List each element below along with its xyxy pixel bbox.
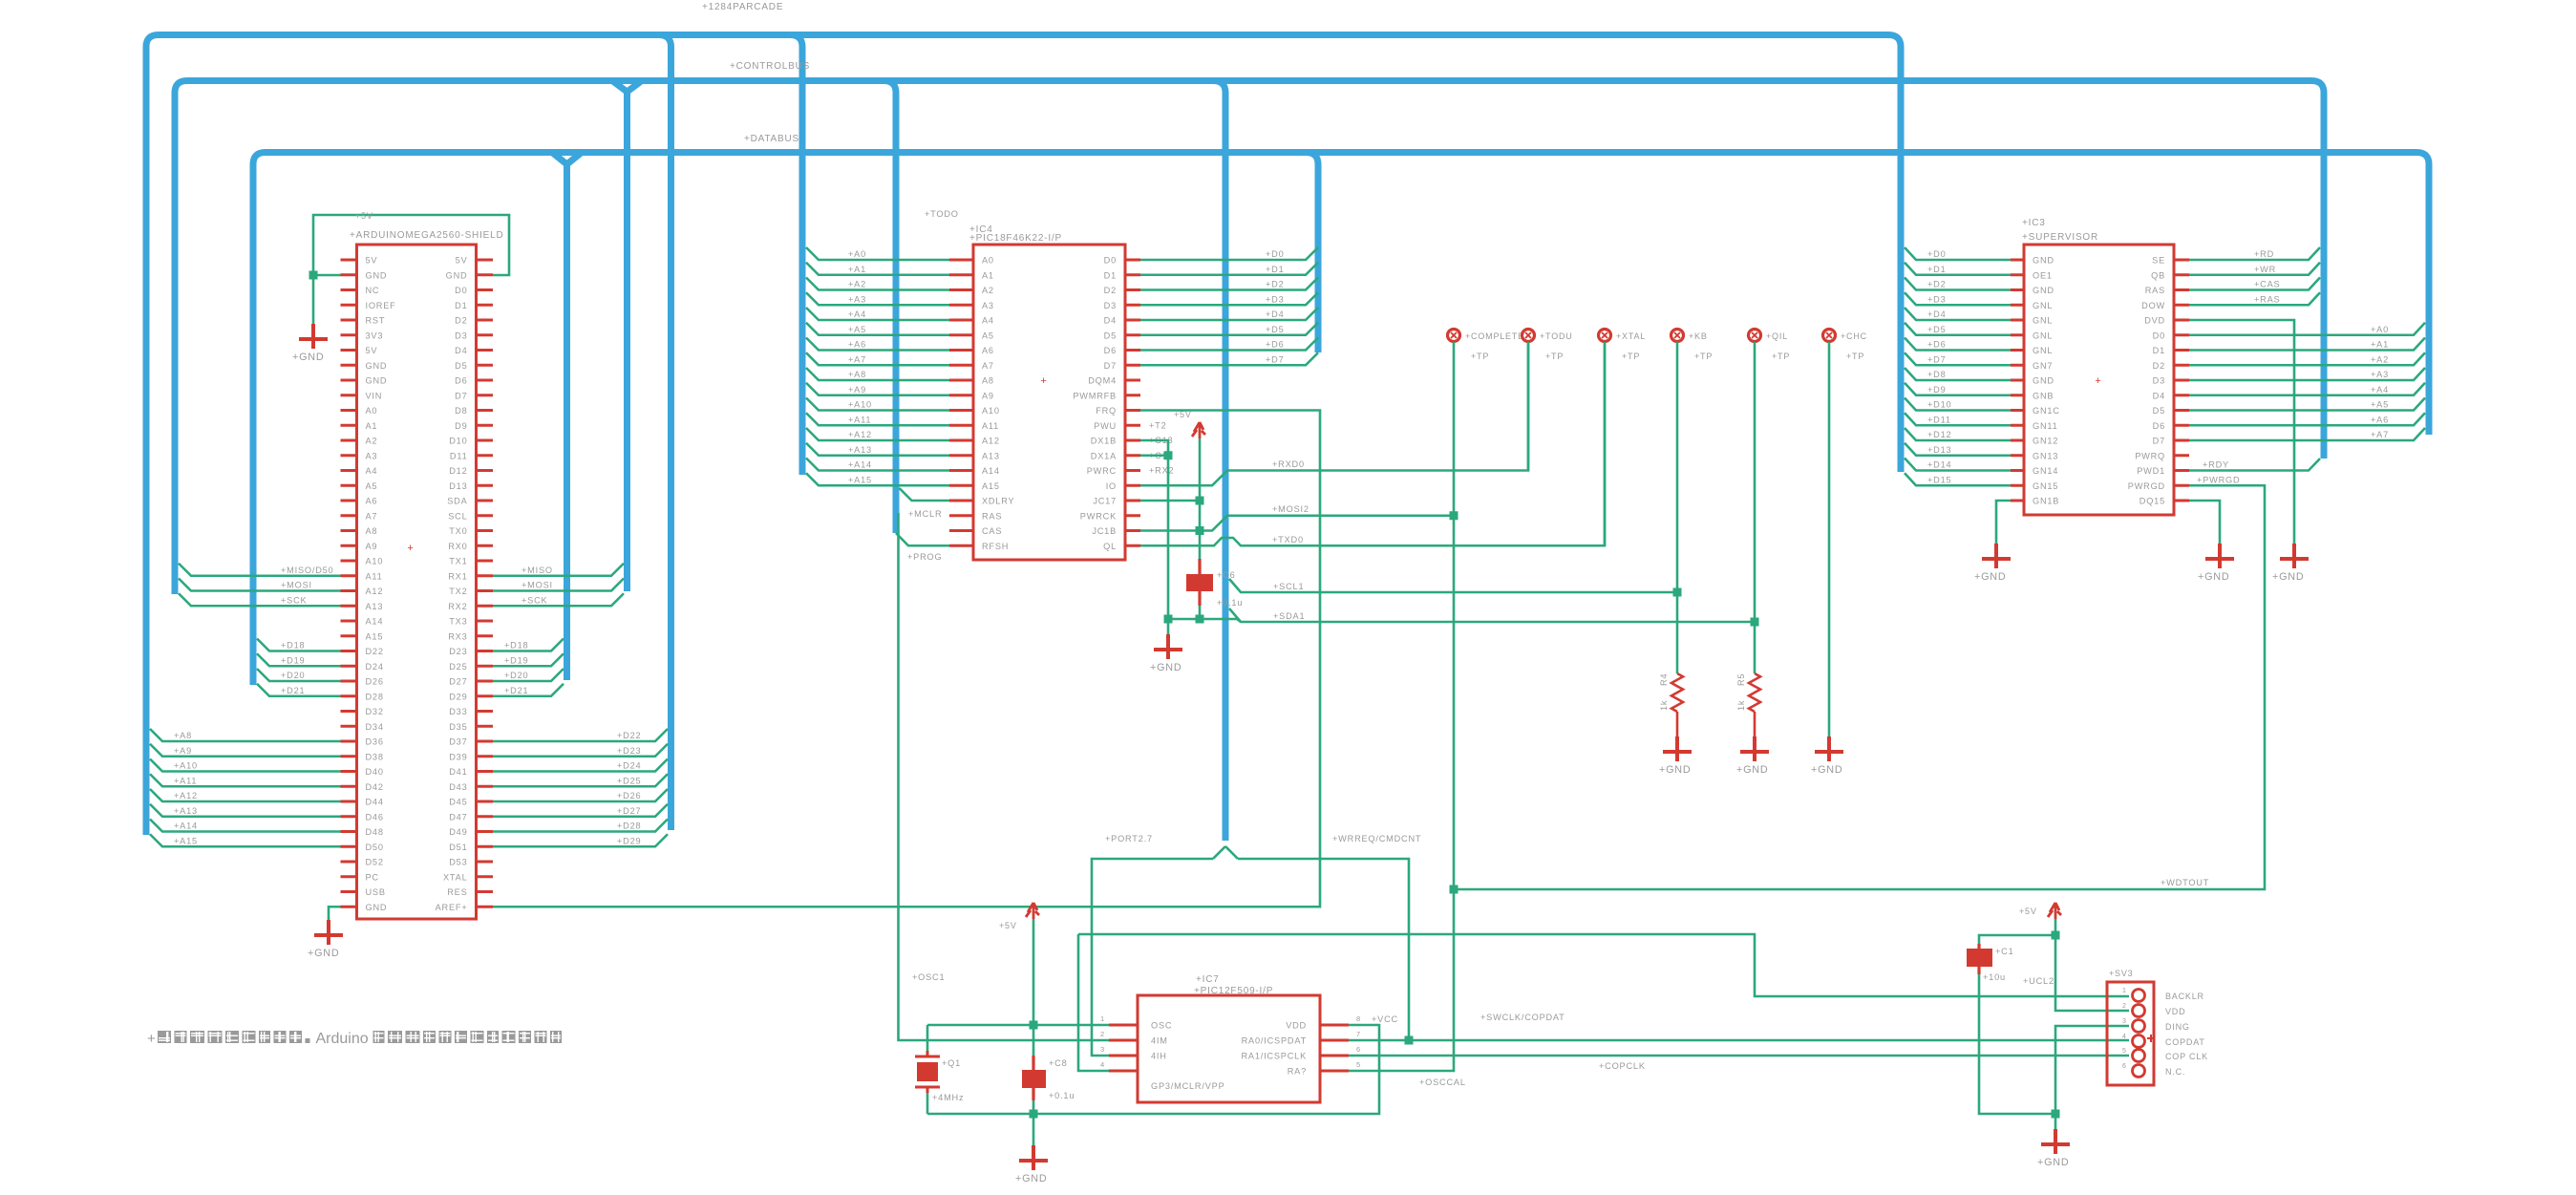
wire TP6 vertical to ground [1828, 342, 1831, 736]
svg-text:+A5: +A5 [2371, 400, 2389, 410]
svg-text:A2: A2 [366, 437, 378, 446]
svg-text:+A8: +A8 [174, 731, 192, 740]
svg-text:+D12: +D12 [1927, 430, 1951, 439]
svg-text:+GND: +GND [1659, 764, 1692, 776]
wire connector pin3 to ground rail [2052, 1026, 2130, 1119]
wire +5V loop to M5 pins row2 [309, 211, 510, 280]
svg-text:D23: D23 [449, 647, 467, 656]
svg-text:D46: D46 [366, 812, 384, 822]
svg-text:+T2: +T2 [1149, 420, 1167, 430]
ground at connector [2037, 1114, 2070, 1168]
capacitor C8 [1022, 1056, 1075, 1100]
svg-text:GNB: GNB [2033, 391, 2054, 400]
svg-text:IOREF: IOREF [366, 301, 396, 310]
svg-text:VDD: VDD [1286, 1021, 1307, 1031]
bus branch V5 from B2 [612, 81, 642, 592]
svg-text:A1: A1 [982, 270, 994, 280]
svg-text:SCL: SCL [448, 511, 467, 521]
svg-text:+A12: +A12 [848, 430, 872, 439]
svg-text:GNL: GNL [2033, 331, 2053, 340]
bus B2 horizontal [175, 81, 2324, 595]
svg-text:GN13: GN13 [2033, 451, 2058, 460]
svg-text:TX1: TX1 [449, 557, 467, 566]
svg-text:COPDAT: COPDAT [2165, 1037, 2205, 1047]
svg-text:BACKLR: BACKLR [2165, 992, 2204, 1001]
svg-text:+: + [407, 543, 414, 554]
svg-text:+D0: +D0 [1266, 249, 1285, 259]
wire IC7 pin6 COPCLK to connector pin5 [1349, 1056, 2129, 1071]
svg-text:+D8: +D8 [1927, 370, 1947, 379]
svg-text:+XTAL: +XTAL [1616, 331, 1646, 341]
svg-text:D0: D0 [1104, 256, 1117, 266]
svg-text:PWD1: PWD1 [2137, 466, 2165, 476]
svg-text:A13: A13 [982, 451, 1000, 460]
svg-text:D6: D6 [2153, 421, 2165, 431]
svg-text:GND: GND [446, 270, 468, 280]
svg-text:+TP: +TP [1471, 352, 1489, 361]
wires M5 right rows 27-30 to bus V4 [493, 639, 564, 696]
svg-text:AREF+: AREF+ [436, 903, 468, 912]
svg-text:+A5: +A5 [848, 325, 866, 334]
svg-text:DX1A: DX1A [1091, 451, 1117, 460]
svg-text:+SCK: +SCK [522, 595, 548, 605]
svg-text:A5: A5 [366, 481, 378, 491]
svg-text:DQ15: DQ15 [2140, 497, 2165, 506]
svg-text:+A6: +A6 [2371, 415, 2389, 424]
svg-text:A6: A6 [982, 346, 994, 355]
svg-text:+PROG: +PROG [907, 552, 942, 562]
svg-text:A10: A10 [982, 406, 1000, 416]
svg-text:+A0: +A0 [848, 249, 866, 259]
wires IC3 right rows6-13 to bus B3 right [2189, 323, 2425, 440]
svg-text:+MOSI2: +MOSI2 [1272, 504, 1309, 514]
svg-text:+GND: +GND [1736, 764, 1769, 776]
svg-text:GND: GND [2033, 256, 2054, 266]
svg-text:1k: 1k [1736, 700, 1746, 711]
test point TP5 [1749, 330, 1791, 362]
wire from step corner down to IC7 pin4 [1078, 934, 1109, 1071]
svg-text:RAS: RAS [982, 511, 1002, 521]
svg-text:5: 5 [2122, 1048, 2127, 1055]
svg-text:A8: A8 [982, 376, 994, 386]
svg-text:A4: A4 [366, 466, 378, 476]
svg-text:D51: D51 [449, 843, 467, 852]
svg-text:D4: D4 [1104, 316, 1117, 326]
svg-text:+D15: +D15 [1927, 475, 1951, 484]
wire IC4 row14 junction [1140, 451, 1173, 459]
svg-text:D49: D49 [449, 827, 467, 837]
svg-text:+D18: +D18 [281, 641, 305, 651]
wire stepped COPDAT0 to connector pin1 [1078, 934, 2129, 996]
svg-text:+RD: +RD [2254, 249, 2274, 259]
svg-text:5V: 5V [366, 256, 378, 266]
svg-text:+D5: +D5 [1266, 325, 1285, 334]
svg-text:A15: A15 [982, 481, 1000, 491]
svg-text:+GND: +GND [292, 352, 325, 363]
svg-text:1: 1 [1100, 1014, 1105, 1023]
svg-text:PWRC: PWRC [1087, 466, 1117, 476]
ground bottom middle [1015, 1114, 1048, 1184]
svg-text:+A2: +A2 [2371, 354, 2389, 364]
supply +5V arrow at IC4 [1174, 410, 1205, 438]
net labels right of port bus [1272, 459, 1309, 621]
svg-text:TX2: TX2 [449, 587, 467, 596]
svg-text:+UCL2: +UCL2 [2023, 976, 2054, 986]
svg-text:+OSC1: +OSC1 [912, 972, 945, 982]
svg-text:A6: A6 [366, 497, 378, 506]
svg-text:D0: D0 [455, 286, 467, 295]
svg-text:D2: D2 [1104, 286, 1117, 295]
svg-text:GN14: GN14 [2033, 466, 2058, 476]
ground under TP6 [1811, 736, 1843, 776]
svg-text:JC1B: JC1B [1092, 526, 1117, 536]
svg-text:3V3: 3V3 [366, 331, 384, 340]
svg-text:+A8: +A8 [848, 370, 866, 379]
svg-text:+COMPLETE: +COMPLETE [1465, 331, 1524, 341]
svg-text:D32: D32 [366, 707, 384, 716]
wire TP4 vertical to resistor R1 [1676, 342, 1679, 673]
wires IC4 left address bundle rows1-16 from bus V7 [806, 247, 949, 485]
wires M5 left rows 22-24 from bus B2 [179, 564, 341, 607]
label UCL2 [2023, 976, 2054, 986]
connector M5 ARDUINO MEGA2560 SHIELD outline [350, 230, 504, 919]
svg-text:SDA: SDA [447, 497, 467, 506]
svg-text:JC17: JC17 [1093, 497, 1117, 506]
svg-text:XTAL: XTAL [443, 872, 468, 882]
svg-text:N.C.: N.C. [2165, 1067, 2185, 1077]
svg-text:+A4: +A4 [848, 309, 866, 319]
wire capacitor C6 bottom to rail and R2 junction [1168, 606, 1759, 627]
svg-text:+A11: +A11 [848, 415, 871, 424]
svg-text:D7: D7 [1104, 361, 1117, 371]
svg-text:+IC3: +IC3 [2022, 218, 2046, 228]
svg-text:+A14: +A14 [848, 460, 872, 470]
svg-text:+VCC: +VCC [1372, 1014, 1398, 1024]
svg-text:VDD: VDD [2165, 1007, 2185, 1016]
label OSCCAL at IC7 pin5 wire [1419, 1078, 1466, 1087]
bus branch V10 from B3 [1306, 153, 1318, 353]
bus branch V8 from B2 [884, 81, 896, 534]
svg-text:D6: D6 [1104, 346, 1117, 355]
svg-text:+MISO/D50: +MISO/D50 [281, 565, 333, 575]
labels IC4 right rows12-15 [1149, 420, 1174, 475]
svg-text:+CHC: +CHC [1841, 331, 1867, 341]
svg-text:D37: D37 [449, 737, 467, 747]
svg-text:D5: D5 [2153, 406, 2165, 416]
IC3 pins with names [2011, 256, 2189, 506]
connector SV3 pins [2107, 969, 2208, 1085]
svg-text:QB: QB [2151, 270, 2165, 280]
svg-text:+0.1u: +0.1u [1217, 598, 1243, 608]
svg-text:+4MHz: +4MHz [932, 1093, 964, 1102]
svg-text:D0: D0 [2153, 331, 2165, 340]
svg-text:+KB: +KB [1689, 331, 1708, 341]
svg-text:+D26: +D26 [617, 791, 641, 800]
svg-text:XDLRY: XDLRY [982, 497, 1014, 506]
svg-text:COP CLK: COP CLK [2165, 1052, 2208, 1061]
svg-text:6: 6 [1356, 1045, 1361, 1054]
svg-text:D12: D12 [449, 466, 467, 476]
svg-text:D1: D1 [1104, 270, 1117, 280]
svg-text:PWRCK: PWRCK [1080, 511, 1117, 521]
svg-text:+TP: +TP [1622, 352, 1640, 361]
svg-text:TX3: TX3 [449, 617, 467, 627]
wire IC4 left row17 from bus V8 [900, 488, 950, 501]
svg-text:+0.1u: +0.1u [1049, 1091, 1075, 1100]
svg-text:+PIC18F46K22-I/P: +PIC18F46K22-I/P [969, 233, 1062, 244]
wire IC7 pin1 OSC rail [912, 972, 1109, 1030]
svg-text:+TODO: +TODO [925, 209, 959, 219]
svg-text:D3: D3 [2153, 376, 2165, 386]
svg-text:D43: D43 [449, 782, 467, 792]
ground under IC3 right row17 [2198, 544, 2234, 583]
capacitor C1 [1967, 944, 2014, 982]
svg-text:RX0: RX0 [448, 542, 467, 551]
svg-text:+D4: +D4 [1927, 309, 1947, 319]
svg-text:D10: D10 [449, 437, 467, 446]
wire MCLR net from bus V8 down to IC7 pin2 [899, 509, 1110, 1040]
IC4 name labels [925, 209, 1062, 387]
svg-text:D1: D1 [455, 301, 467, 310]
svg-text:D4: D4 [2153, 391, 2165, 400]
svg-text:GN1B: GN1B [2033, 497, 2059, 506]
svg-text:D36: D36 [366, 737, 384, 747]
svg-text:+A1: +A1 [2371, 340, 2389, 350]
svg-text:RX2: RX2 [448, 602, 467, 611]
svg-text:D48: D48 [366, 827, 384, 837]
connector M5 pins with names [341, 256, 494, 912]
svg-text:+D19: +D19 [281, 655, 305, 665]
svg-text:+C1: +C1 [1995, 947, 2014, 956]
svg-text:+A3: +A3 [2371, 370, 2389, 379]
svg-text:RES: RES [447, 887, 467, 897]
svg-text:A5: A5 [982, 331, 994, 340]
svg-text:+GND: +GND [1015, 1173, 1048, 1184]
ground under IC4 C bypass [1150, 615, 1182, 674]
wire IC4 row13 to GND rail [1140, 440, 1168, 619]
svg-text:5V: 5V [456, 256, 468, 266]
svg-text:A4: A4 [982, 316, 994, 326]
svg-text:A9: A9 [982, 391, 994, 400]
wires M5 left rows 27-30 from bus B3 [257, 639, 341, 696]
svg-text:RX3: RX3 [448, 631, 467, 641]
svg-text:+RX2: +RX2 [1149, 466, 1174, 476]
svg-text:GND: GND [366, 361, 388, 371]
bus label CONTROL [730, 61, 810, 72]
svg-text:D22: D22 [366, 647, 384, 656]
svg-text:D4: D4 [455, 346, 467, 355]
svg-text:+Q1: +Q1 [942, 1058, 961, 1068]
svg-text:+PIC12F509-I/P: +PIC12F509-I/P [1194, 986, 1273, 996]
svg-text:+GND: +GND [1150, 662, 1182, 673]
svg-text:TX0: TX0 [449, 526, 467, 536]
svg-text:R5: R5 [1736, 673, 1746, 686]
svg-text:+TP: +TP [1772, 352, 1790, 361]
svg-text:D33: D33 [449, 707, 467, 716]
svg-text:+A0: +A0 [2371, 325, 2389, 334]
svg-text:+A6: +A6 [848, 340, 866, 350]
svg-text:+D0: +D0 [1927, 249, 1947, 259]
svg-text:+D29: +D29 [617, 836, 641, 845]
svg-text:+GND: +GND [2037, 1157, 2070, 1168]
svg-text:GN1C: GN1C [2033, 406, 2060, 416]
svg-text:+CONTROLBUS: +CONTROLBUS [730, 61, 810, 72]
svg-text:D26: D26 [366, 677, 384, 687]
svg-text:D47: D47 [449, 812, 467, 822]
svg-text:A1: A1 [366, 421, 378, 431]
svg-text:+D13: +D13 [1927, 445, 1951, 455]
svg-text:+D1: +D1 [1927, 265, 1947, 274]
svg-text:+SUPERVISOR: +SUPERVISOR [2022, 232, 2098, 243]
svg-text:+1284PARCADE: +1284PARCADE [702, 2, 783, 12]
svg-text:RA0/ICSPDAT: RA0/ICSPDAT [1242, 1036, 1307, 1046]
svg-text:Arduino: Arduino [316, 1031, 369, 1047]
svg-text:2: 2 [2122, 1003, 2127, 1010]
svg-text:4IM: 4IM [1151, 1036, 1168, 1046]
svg-text:D53: D53 [449, 858, 467, 867]
svg-text:+D27: +D27 [617, 806, 641, 816]
svg-text:D5: D5 [455, 361, 467, 371]
svg-text:+D2: +D2 [1266, 280, 1285, 289]
wire IC4 row17 to +5V vertical [1140, 500, 1200, 502]
svg-text:D52: D52 [366, 858, 384, 867]
svg-text:D9: D9 [455, 421, 467, 431]
wire port bus right exit WRREQ to IC7 pin7 junction [1238, 834, 1421, 1041]
svg-text:D25: D25 [449, 662, 467, 672]
note text japanese [147, 1031, 562, 1047]
svg-text:D7: D7 [2153, 437, 2165, 446]
svg-text:+D22: +D22 [617, 731, 641, 740]
svg-text:OE1: OE1 [2033, 270, 2053, 280]
svg-text:+WDTOUT: +WDTOUT [2161, 878, 2209, 887]
svg-text:A3: A3 [982, 301, 994, 310]
wires M5 right rows 33-40 to bus V6 [493, 729, 668, 846]
svg-text:RA?: RA? [1288, 1067, 1307, 1077]
test point TP1 [1448, 330, 1524, 362]
svg-text:+GND: +GND [2198, 571, 2230, 583]
wire port bus left exit to IC7 pin3 [1092, 859, 1213, 1056]
ground under IC3 right row5 [2272, 544, 2309, 583]
svg-text:4IH: 4IH [1151, 1052, 1167, 1061]
bus label DATA [702, 2, 783, 12]
svg-text:+SCL1: +SCL1 [1273, 582, 1304, 591]
svg-text:4: 4 [2122, 1034, 2127, 1040]
wire IC4 row16 shifted to TP circle2 [1140, 342, 1528, 485]
svg-text:+D9: +D9 [1927, 385, 1947, 395]
svg-text:RST: RST [366, 316, 386, 326]
svg-text:+D6: +D6 [1266, 340, 1285, 350]
svg-text:+A10: +A10 [174, 761, 198, 771]
svg-text:GN12: GN12 [2033, 437, 2058, 446]
svg-text:D35: D35 [449, 722, 467, 732]
svg-text:RFSH: RFSH [982, 542, 1009, 551]
bus branch V7 (memory bus) from B1 [790, 35, 802, 476]
svg-text:+D7: +D7 [1927, 354, 1947, 364]
svg-text:PC: PC [366, 872, 379, 882]
svg-text:+D20: +D20 [281, 671, 305, 680]
ground under R2 [1736, 712, 1769, 776]
svg-text:D39: D39 [449, 752, 467, 761]
svg-text:VIN: VIN [366, 391, 383, 400]
wire +5V down through capacitor C8 [1033, 919, 1035, 1114]
test point TP4 [1671, 330, 1714, 362]
wire IC4 row20 hop over port bus to TP circle3 [1140, 342, 1605, 545]
svg-text:GND: GND [2033, 286, 2054, 295]
svg-text:+A15: +A15 [174, 836, 198, 845]
svg-text:D8: D8 [455, 406, 467, 416]
svg-text:+TP: +TP [1694, 352, 1713, 361]
svg-text:GND: GND [366, 376, 388, 386]
svg-text:+D5: +D5 [1927, 325, 1947, 334]
svg-text:+MCLR: +MCLR [908, 509, 942, 519]
svg-text:+CAS: +CAS [2254, 280, 2280, 289]
svg-text:A7: A7 [366, 511, 378, 521]
svg-text:D40: D40 [366, 767, 384, 777]
ground at IC3 left [1974, 544, 2011, 583]
svg-text:FRQ: FRQ [1096, 406, 1117, 416]
svg-text:+D11: +D11 [1927, 415, 1951, 424]
IC3 supervisor outline [2022, 218, 2174, 515]
svg-text:GNL: GNL [2033, 301, 2053, 310]
svg-text:DQM4: DQM4 [1088, 376, 1117, 386]
supply +5V arrow bottom middle [999, 903, 1039, 930]
svg-text:PWU: PWU [1094, 421, 1117, 431]
svg-text:GP3/MCLR/VPP: GP3/MCLR/VPP [1151, 1081, 1225, 1091]
svg-text:8: 8 [1356, 1014, 1361, 1023]
svg-text:+D21: +D21 [504, 686, 528, 695]
svg-text:+A13: +A13 [174, 806, 198, 816]
wire M5 RESET long net to IC4 pin row11 [493, 411, 1320, 907]
svg-text:+TP: +TP [1846, 352, 1864, 361]
capacitor C6 bypass [1186, 559, 1243, 608]
svg-text:D41: D41 [449, 767, 467, 777]
svg-text:+D14: +D14 [1927, 460, 1951, 470]
svg-text:+D28: +D28 [617, 822, 641, 831]
svg-text:+5V: +5V [1174, 410, 1192, 419]
svg-text:+RDY: +RDY [2203, 460, 2229, 470]
svg-text:PWRQ: PWRQ [2135, 451, 2165, 460]
svg-text:+PWRGD: +PWRGD [2197, 475, 2240, 484]
svg-text:+D7: +D7 [1266, 354, 1285, 364]
svg-text:+TXD0: +TXD0 [1272, 535, 1304, 544]
svg-text:+A7: +A7 [2371, 430, 2389, 439]
svg-text:+A9: +A9 [174, 746, 192, 756]
svg-text:D6: D6 [455, 376, 467, 386]
svg-text:SE: SE [2152, 256, 2165, 266]
wire TP3 vertical [1604, 342, 1607, 545]
svg-text:A11: A11 [366, 571, 383, 581]
svg-text:+D23: +D23 [617, 746, 641, 756]
svg-text:GN11: GN11 [2033, 421, 2058, 431]
svg-text:+RAS: +RAS [2254, 294, 2280, 304]
svg-text:A7: A7 [982, 361, 994, 371]
svg-text:D24: D24 [366, 662, 384, 672]
bus B1 horizontal top [146, 35, 1901, 836]
svg-text:D45: D45 [449, 798, 467, 807]
svg-text:+SCK: +SCK [281, 595, 308, 605]
svg-text:+SDA1: +SDA1 [1273, 611, 1305, 621]
svg-text:+C6: +C6 [1217, 570, 1236, 580]
svg-text:D5: D5 [1104, 331, 1117, 340]
svg-text:3: 3 [2122, 1018, 2127, 1025]
bus branch V6 from B1 [659, 35, 671, 831]
svg-text:+GND: +GND [308, 948, 340, 959]
svg-text:+TODU: +TODU [1540, 331, 1573, 341]
svg-text:+MOSI: +MOSI [522, 581, 553, 590]
svg-text:+RXD0: +RXD0 [1272, 459, 1305, 469]
crystal Q1 [915, 1025, 964, 1114]
svg-text:+A12: +A12 [174, 791, 198, 800]
